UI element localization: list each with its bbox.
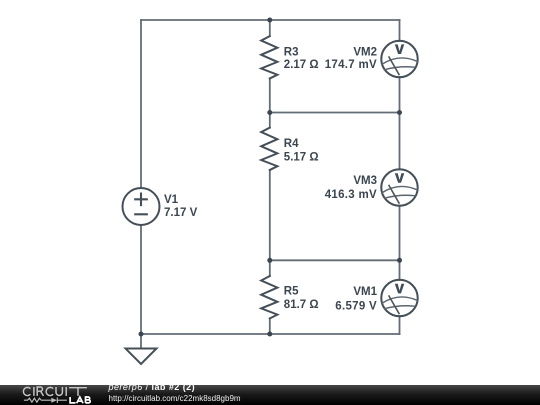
svg-text:VM1: VM1 bbox=[353, 286, 377, 298]
wire left vertical upper (top rail to V1) bbox=[140, 20, 142, 188]
svg-text:6.579 V: 6.579 V bbox=[335, 301, 377, 313]
svg-text:R4: R4 bbox=[284, 138, 299, 150]
pin letter V of VM3 bbox=[395, 173, 405, 183]
wire R5 top lead bbox=[269, 260, 271, 276]
svg-text:http://circuitlab.com/c22mk8sd: http://circuitlab.com/c22mk8sd8gb9m bbox=[109, 394, 241, 403]
label VM3 value 416.3 mV bbox=[325, 189, 377, 201]
label V1 name bbox=[164, 194, 179, 206]
CircuitLab logo wordmark CIRCUIT bbox=[23, 387, 86, 396]
resistor R5 bbox=[261, 276, 277, 318]
wire R4 bottom lead bbox=[269, 170, 271, 260]
wire left vertical lower (V1 to bottom rail) bbox=[140, 225, 142, 334]
node junction top rail / R3 bbox=[267, 18, 272, 23]
wire bottom rail bbox=[141, 333, 400, 335]
label R4 value 5.17 ohm bbox=[284, 152, 319, 164]
svg-text:174.7 mV: 174.7 mV bbox=[325, 59, 377, 71]
svg-text:VM3: VM3 bbox=[353, 175, 377, 187]
ground bbox=[126, 349, 157, 365]
svg-text:R5: R5 bbox=[284, 286, 299, 298]
footer url bbox=[109, 394, 241, 403]
label VM2 value 174.7 mV bbox=[325, 59, 377, 71]
wire VM3 bottom lead bbox=[399, 206, 401, 261]
svg-text:5.17 Ω: 5.17 Ω bbox=[284, 152, 319, 164]
wire VM2 top lead bbox=[399, 20, 401, 41]
svg-text:7.17 V: 7.17 V bbox=[164, 207, 198, 219]
label VM1 name bbox=[353, 286, 377, 298]
wire R3 top lead bbox=[269, 20, 271, 36]
pin letter V of VM2 bbox=[395, 44, 405, 54]
svg-text:pererp6 / lab #2 (2): pererp6 / lab #2 (2) bbox=[108, 382, 196, 392]
resistor R3 bbox=[261, 36, 277, 78]
node bottom rail / ground bbox=[139, 332, 144, 337]
label R5 name bbox=[284, 286, 299, 298]
voltmeter VM1 bbox=[381, 280, 418, 316]
wire VM3 top lead bbox=[399, 113, 401, 170]
node rail2 left bbox=[267, 110, 272, 115]
label R4 name bbox=[284, 138, 299, 150]
CircuitLab logo resistor-diode glyph bbox=[24, 397, 67, 403]
wire VM1 bottom lead bbox=[399, 316, 401, 334]
wire VM1 top lead bbox=[399, 260, 401, 280]
svg-text:V1: V1 bbox=[164, 194, 179, 206]
voltage source V1 bbox=[123, 188, 160, 225]
svg-text:81.7 Ω: 81.7 Ω bbox=[284, 299, 319, 311]
node rail2 right bbox=[397, 110, 402, 115]
label VM3 name bbox=[353, 175, 377, 187]
label R5 value 81.7 ohm bbox=[284, 299, 319, 311]
wire VM2 bottom lead bbox=[399, 77, 401, 113]
footer title: pererp6 / lab #2 (2) bbox=[108, 382, 196, 392]
voltmeter VM2 bbox=[381, 41, 418, 77]
label VM1 value 6.579 V bbox=[335, 301, 377, 313]
label R3 value 2.17 ohm bbox=[284, 59, 319, 71]
svg-text:VM2: VM2 bbox=[353, 46, 377, 58]
wire R3 bottom lead bbox=[269, 79, 271, 113]
node bottom rail / R5 bbox=[267, 332, 272, 337]
svg-text:R3: R3 bbox=[284, 46, 299, 58]
wire R4 top lead bbox=[269, 113, 271, 128]
wire middle rail 3 bbox=[270, 259, 400, 261]
wire top rail bbox=[141, 19, 400, 21]
wire ground stub bbox=[140, 334, 142, 349]
label R3 name bbox=[284, 46, 299, 58]
wire R5 bottom lead bbox=[269, 318, 271, 334]
footer bar bbox=[0, 385, 540, 405]
voltmeter VM3 bbox=[381, 169, 418, 205]
label V1 value 7.17 V bbox=[164, 207, 198, 219]
node rail3 left bbox=[267, 258, 272, 263]
svg-text:2.17 Ω: 2.17 Ω bbox=[284, 59, 319, 71]
resistor R4 bbox=[261, 128, 277, 170]
wire middle rail 2 bbox=[270, 112, 400, 114]
pin letter V of VM1 bbox=[395, 284, 405, 294]
node rail3 right bbox=[397, 258, 402, 263]
CircuitLab logo wordmark LAB bbox=[70, 397, 90, 403]
svg-text:416.3 mV: 416.3 mV bbox=[325, 189, 377, 201]
label VM2 name bbox=[353, 46, 377, 58]
